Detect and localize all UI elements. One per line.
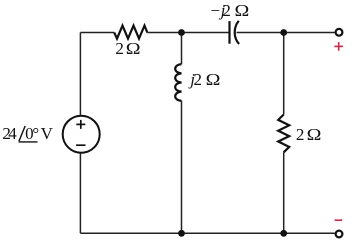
svg-text:240°V: 240°V	[2, 124, 53, 143]
svg-text:2: 2	[194, 70, 203, 89]
svg-text:Ω: Ω	[206, 71, 221, 89]
svg-text:Ω: Ω	[126, 40, 141, 58]
svg-text:Ω: Ω	[307, 126, 322, 144]
svg-text:Ω: Ω	[235, 2, 250, 20]
svg-text:2: 2	[115, 39, 124, 58]
svg-text:2: 2	[296, 125, 305, 144]
svg-text:2: 2	[222, 1, 231, 20]
